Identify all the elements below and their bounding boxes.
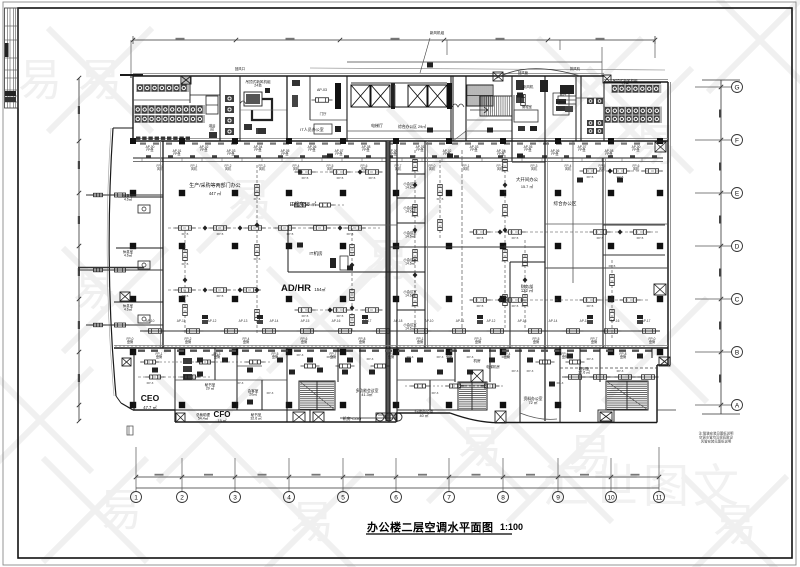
svg-text:FP-5: FP-5	[337, 176, 344, 180]
svg-text:15 ㎡: 15 ㎡	[217, 418, 226, 423]
label CEO	[141, 393, 160, 410]
svg-text:47.7 ㎡: 47.7 ㎡	[143, 404, 157, 410]
grid line 11	[654, 447, 665, 503]
vertical run x257	[255, 165, 260, 335]
svg-text:AP-13: AP-13	[239, 319, 248, 323]
vertical unit runs	[413, 150, 615, 340]
svg-text:FP-5: FP-5	[609, 264, 616, 268]
svg-text:AP-03: AP-03	[317, 88, 327, 92]
svg-text:AP-15: AP-15	[301, 319, 310, 323]
svg-text:风机: 风机	[531, 166, 538, 171]
svg-text:24台: 24台	[254, 83, 262, 88]
AHU room top-left	[240, 79, 287, 134]
svg-text:FP-5: FP-5	[182, 232, 189, 236]
long fan-coil run y330	[140, 329, 660, 334]
svg-text:FP-5: FP-5	[512, 236, 519, 240]
svg-text:AP-12: AP-12	[487, 319, 496, 323]
grid line 6	[391, 458, 402, 503]
bottom band label clusters	[127, 337, 656, 359]
lower strip wall y410	[175, 410, 460, 422]
svg-text:A: A	[735, 403, 740, 410]
corridor wall below top band	[133, 139, 668, 145]
label finance	[521, 283, 534, 293]
svg-text:FP盘: FP盘	[632, 147, 640, 152]
svg-text:盘管: 盘管	[301, 339, 307, 344]
central corridor wall	[386, 141, 390, 421]
staircase bottom right	[606, 381, 648, 410]
room between stair and toilet2	[553, 76, 581, 141]
svg-text:AP-14: AP-14	[270, 319, 279, 323]
svg-text:447 ㎡: 447 ㎡	[209, 190, 222, 196]
toilet block label row	[136, 137, 190, 140]
svg-text:易: 易	[98, 486, 142, 535]
staircase bottom middle	[458, 382, 487, 410]
svg-text:4.6㎡: 4.6㎡	[124, 306, 133, 311]
bottom center doorway	[376, 413, 396, 422]
grid bubble F	[695, 135, 743, 146]
bottom right room fan coils	[562, 375, 659, 380]
svg-text:FP-5: FP-5	[502, 214, 509, 218]
svg-text:32.6 ㎡: 32.6 ㎡	[578, 370, 590, 375]
building right exterior wall	[668, 82, 671, 365]
svg-text:FP-5: FP-5	[217, 232, 224, 236]
svg-text:AP-12: AP-12	[208, 319, 217, 323]
svg-text:风机: 风机	[463, 166, 470, 171]
svg-text:机房: 机房	[473, 358, 481, 363]
top outside labels	[235, 30, 581, 75]
toilet block 2 partitions	[576, 77, 661, 141]
svg-text:大开间办公: 大开间办公	[516, 176, 539, 183]
svg-text:FP-5: FP-5	[512, 304, 519, 308]
svg-text:FP-5: FP-5	[302, 176, 309, 180]
left small room units	[123, 193, 150, 323]
wall cap top-left	[113, 75, 143, 128]
xbox under stair left	[313, 412, 324, 422]
fan-coil run lower mid	[295, 308, 383, 313]
top mid walls near stairs	[451, 76, 545, 162]
svg-text:FP-5: FP-5	[182, 294, 189, 298]
svg-text:D: D	[735, 244, 740, 251]
grid bubble B	[695, 347, 743, 358]
svg-text:10: 10	[607, 495, 615, 502]
label CFO	[214, 410, 231, 423]
svg-text:FP-3: FP-3	[527, 369, 534, 373]
toilet block 2 top label	[612, 78, 638, 87]
bottom band partitions	[134, 346, 657, 422]
toilet block 2 small cells	[587, 98, 603, 134]
wall x603 vertical	[603, 158, 606, 348]
svg-text:FP-5: FP-5	[337, 314, 344, 318]
elevator doors	[240, 101, 464, 107]
toilet block partitions left	[133, 76, 287, 141]
svg-text:40 ㎡: 40 ㎡	[419, 413, 428, 418]
svg-text:F: F	[735, 138, 739, 145]
svg-text:9: 9	[556, 495, 560, 502]
svg-text:综合办公区: 综合办公区	[554, 200, 577, 207]
structural columns	[130, 138, 663, 408]
svg-text:盘管: 盘管	[388, 354, 394, 359]
left rooms column wall	[114, 141, 163, 348]
lobby partition walls	[287, 76, 347, 141]
fan-coil run lower right2	[470, 298, 651, 303]
svg-text:14.6㎡: 14.6㎡	[405, 325, 415, 330]
svg-text:回风口: 回风口	[235, 67, 245, 71]
svg-text:FP-3: FP-3	[467, 355, 474, 359]
label ADHR	[281, 283, 326, 294]
svg-text:FP盘: FP盘	[335, 151, 343, 156]
svg-text:FP-5: FP-5	[437, 197, 444, 201]
svg-text:FP-5: FP-5	[287, 232, 294, 236]
left room xbox	[120, 292, 130, 301]
svg-text:FP盘: FP盘	[200, 147, 208, 152]
svg-text:门厅: 门厅	[320, 111, 327, 116]
svg-text:盘管: 盘管	[359, 339, 365, 344]
svg-text:风机: 风机	[361, 166, 368, 171]
toilet fixtures row 3 right block	[604, 115, 662, 123]
duct run extra marks	[146, 155, 657, 157]
fan-coil run mid right	[470, 230, 661, 235]
grid line 5	[338, 458, 349, 503]
lobby unit	[292, 80, 341, 134]
top dimension line	[131, 36, 657, 76]
svg-text:8: 8	[501, 495, 505, 502]
shaft xbox bottom middle	[495, 411, 506, 423]
meeting rooms stack	[390, 141, 545, 348]
svg-text:FP-5: FP-5	[587, 304, 594, 308]
svg-text:11: 11	[656, 495, 663, 502]
svg-text:FP盘: FP盘	[551, 151, 559, 156]
svg-text:FP-5: FP-5	[587, 175, 594, 179]
building top exterior wall	[133, 74, 668, 83]
toilet fixtures row 3 left block	[134, 115, 205, 123]
fan-coil run right upper	[580, 169, 664, 174]
svg-text:盘管: 盘管	[620, 354, 626, 359]
svg-text:FP-3: FP-3	[212, 353, 219, 357]
wall x545 vertical	[545, 141, 548, 421]
svg-text:CEO: CEO	[141, 393, 160, 403]
svg-text:B: B	[735, 350, 739, 357]
bottom band extra clusters	[147, 353, 624, 395]
svg-text:FP盘: FP盘	[146, 147, 154, 152]
grid bubble E	[695, 188, 743, 199]
svg-text:AP-14: AP-14	[549, 319, 558, 323]
corner mark bottom left	[127, 426, 133, 435]
entrance canopy arc	[495, 69, 580, 79]
svg-text:新风机: 新风机	[523, 84, 534, 89]
legend notes bottom right	[699, 431, 734, 444]
svg-text:FP盘: FP盘	[362, 147, 370, 152]
scattered small units middle	[297, 63, 623, 271]
svg-text:回风管: 回风管	[518, 70, 529, 75]
right dimension line	[702, 80, 740, 414]
bottom band small units	[152, 354, 643, 405]
wall x453	[452, 76, 454, 141]
vertical run x352	[350, 228, 355, 332]
right zone wall y268	[545, 224, 668, 268]
grid line 1	[131, 447, 142, 503]
elevator bank	[335, 83, 452, 109]
financial room walls	[510, 262, 545, 348]
svg-text:风机: 风机	[565, 166, 572, 171]
svg-text:20㎡: 20㎡	[249, 392, 257, 397]
svg-text:FP-5: FP-5	[637, 236, 644, 240]
bottom-left exterior wall	[116, 365, 668, 423]
svg-text:FP盘: FP盘	[173, 151, 181, 156]
lower strip labels	[196, 412, 262, 421]
svg-text:72 ㎡: 72 ㎡	[528, 400, 537, 405]
grid line 2	[177, 458, 188, 503]
svg-text:风机: 风机	[191, 166, 198, 171]
svg-text:CFO: CFO	[214, 410, 231, 419]
svg-text:15.7 ㎡: 15.7 ㎡	[521, 184, 533, 189]
label IT office right	[516, 176, 577, 207]
grid line 9	[553, 458, 564, 503]
title strip table	[5, 8, 19, 108]
svg-text:盘管: 盘管	[475, 339, 481, 344]
bottom band tick row	[138, 350, 652, 352]
svg-text:盘管: 盘管	[185, 339, 191, 344]
label IT room	[290, 201, 316, 208]
svg-text:盘管: 盘管	[533, 339, 539, 344]
grid line 8	[498, 458, 509, 503]
toilet fixtures row 2 left block	[134, 105, 205, 114]
svg-text:风机: 风机	[225, 166, 232, 171]
svg-text:154㎡: 154㎡	[314, 286, 326, 292]
toilet fixtures row 1 right block	[611, 85, 661, 94]
bottom band top wall	[114, 346, 668, 349]
svg-text:盘管: 盘管	[649, 339, 655, 344]
svg-text:FP-3: FP-3	[147, 381, 154, 385]
svg-text:FP-5: FP-5	[254, 197, 261, 201]
svg-text:盘管: 盘管	[591, 339, 597, 344]
svg-text:风机: 风机	[633, 166, 640, 171]
svg-text:FP-5: FP-5	[502, 259, 509, 263]
svg-text:风管安装见图纸说明: 风管安装见图纸说明	[701, 439, 732, 444]
svg-text:AP-10: AP-10	[425, 319, 434, 323]
svg-text:FP-3: FP-3	[437, 355, 444, 359]
svg-text:FP-3: FP-3	[617, 369, 624, 373]
label production office	[189, 182, 240, 196]
svg-text:风机: 风机	[395, 166, 402, 171]
svg-text:FP-5: FP-5	[182, 262, 189, 266]
fan-coil run upper rooms	[295, 170, 383, 175]
svg-text:3: 3	[233, 495, 237, 502]
wall x573	[572, 141, 574, 283]
shaft xbox above bottom stair	[471, 358, 500, 382]
shaft xbox right of stair	[493, 72, 503, 81]
svg-text:FP盘: FP盘	[308, 147, 316, 152]
svg-text:G: G	[734, 85, 739, 92]
grid bubble A	[695, 400, 743, 411]
svg-text:FP盘: FP盘	[470, 147, 478, 152]
room 512-545 fixtures	[514, 80, 538, 131]
toilet fixtures row 1 left block	[136, 84, 189, 92]
xbox on left wall bottom	[122, 358, 131, 366]
svg-text:FP-5: FP-5	[617, 175, 624, 179]
grid bubble D	[695, 241, 743, 252]
svg-text:FP-3: FP-3	[557, 381, 564, 385]
svg-text:易: 易	[290, 498, 334, 547]
svg-text:5: 5	[341, 495, 345, 502]
duct stub x462	[461, 150, 463, 330]
svg-text:FP盘: FP盘	[416, 147, 424, 152]
svg-text:6: 6	[394, 495, 398, 502]
wall x397 meeting rooms west	[396, 141, 398, 348]
svg-text:FP-3: FP-3	[267, 391, 274, 395]
svg-text:风机: 风机	[327, 166, 334, 171]
svg-text:7: 7	[447, 495, 451, 502]
svg-text:生产/采购等两部门办公: 生产/采购等两部门办公	[189, 182, 240, 189]
svg-text:机房·COO: 机房·COO	[343, 415, 361, 421]
svg-text:FP-5: FP-5	[369, 176, 376, 180]
building left curved curtain wall	[107, 128, 116, 396]
svg-text:FP-3: FP-3	[237, 381, 244, 385]
svg-text:FP盘: FP盘	[254, 147, 262, 152]
svg-text:新风机组: 新风机组	[430, 30, 445, 35]
svg-text:易: 易	[458, 423, 502, 472]
svg-text:122 ㎡: 122 ㎡	[521, 287, 534, 293]
curve bottom middle	[520, 413, 557, 419]
svg-text:FP-5: FP-5	[412, 169, 419, 173]
svg-text:IT人员办公室: IT人员办公室	[300, 126, 324, 132]
svg-text:AP-18: AP-18	[394, 319, 403, 323]
shower cells	[206, 96, 264, 138]
svg-text:1: 1	[134, 495, 138, 502]
svg-text:14.6㎡: 14.6㎡	[405, 233, 415, 238]
stair landing lines	[467, 120, 512, 131]
left block west wall	[132, 76, 134, 141]
svg-text:盘管: 盘管	[417, 339, 423, 344]
svg-text:29 ㎡: 29 ㎡	[206, 386, 215, 391]
svg-text:风机: 风机	[429, 166, 436, 171]
svg-text:风机: 风机	[259, 166, 266, 171]
svg-text:FP-5: FP-5	[217, 294, 224, 298]
svg-text:4.6㎡: 4.6㎡	[124, 252, 133, 257]
svg-text:E: E	[735, 191, 740, 198]
grid line 7	[444, 458, 455, 503]
svg-text:FP-5: FP-5	[412, 214, 419, 218]
svg-text:4: 4	[287, 495, 291, 502]
bottom notch with xbox	[598, 410, 614, 422]
svg-text:FP-3: FP-3	[502, 355, 509, 359]
right wall shaft boxes	[654, 142, 666, 295]
grid line 4	[284, 458, 295, 503]
svg-text:电梯机房: 电梯机房	[486, 364, 500, 369]
svg-text:1:100: 1:100	[500, 522, 523, 532]
svg-text:FP-5: FP-5	[522, 304, 529, 308]
svg-text:盘管: 盘管	[127, 339, 133, 344]
lower strip xboxes	[176, 412, 305, 422]
svg-text:FP-5: FP-5	[522, 264, 529, 268]
svg-text:54.4㎡: 54.4㎡	[198, 416, 209, 421]
svg-text:综合办公区 29㎡: 综合办公区 29㎡	[398, 124, 426, 129]
AHU room 2 labels	[514, 80, 548, 120]
svg-text:盘管: 盘管	[156, 354, 162, 359]
grid line 10	[606, 458, 617, 503]
svg-text:办公楼二层空调水平面图: 办公楼二层空调水平面图	[367, 520, 494, 534]
svg-text:FP-5: FP-5	[502, 169, 509, 173]
canopy line above top wall	[310, 62, 665, 70]
svg-text:AP-10: AP-10	[146, 319, 155, 323]
left stub runs	[78, 193, 163, 327]
lobby floor line	[347, 131, 466, 141]
svg-text:风机: 风机	[599, 166, 606, 171]
drawing title	[366, 520, 523, 534]
svg-text:2: 2	[180, 495, 184, 502]
shaft at top of toilet block	[181, 76, 191, 84]
svg-text:32.6 ㎡: 32.6 ㎡	[250, 416, 262, 421]
bottom band unit runs	[140, 360, 585, 388]
svg-text:FP-5: FP-5	[254, 257, 261, 261]
staircase bottom left	[299, 381, 335, 410]
svg-text:FP-5: FP-5	[597, 236, 604, 240]
svg-text:风机: 风机	[293, 166, 300, 171]
grid line 3	[230, 458, 241, 503]
bottom dimension line	[134, 474, 661, 488]
fixture stack right of CEO	[183, 358, 192, 380]
right rooms dividers	[603, 225, 665, 255]
svg-text:FP-5: FP-5	[412, 259, 419, 263]
vertical run x185	[183, 230, 188, 335]
grid bubble G	[695, 82, 743, 93]
run through CEO top	[138, 375, 210, 379]
svg-text:AP-11: AP-11	[177, 319, 186, 323]
svg-text:C: C	[735, 297, 740, 304]
svg-text:AD/HR: AD/HR	[281, 283, 311, 294]
svg-text:FP盘: FP盘	[524, 147, 532, 152]
svg-text:FP-5: FP-5	[477, 236, 484, 240]
svg-text:FP-5: FP-5	[347, 232, 354, 236]
shaft top toilet2	[603, 75, 611, 83]
IT room walls	[288, 225, 397, 272]
main duct run horizontal	[133, 158, 663, 162]
middle zone run labels	[182, 169, 644, 318]
svg-text:AP-11: AP-11	[456, 319, 465, 323]
run IT upper	[290, 203, 345, 207]
svg-text:FP-5: FP-5	[412, 304, 419, 308]
fan-coil run production2	[168, 288, 262, 293]
svg-text:易: 易	[78, 56, 122, 105]
open office west wall	[162, 141, 164, 348]
AHU cluster left of toilet2	[556, 85, 576, 112]
svg-text:管理室: 管理室	[522, 104, 533, 109]
svg-text:FP-3: FP-3	[587, 357, 594, 361]
svg-text:IT机房: IT机房	[309, 250, 323, 257]
svg-text:FP-5: FP-5	[477, 304, 484, 308]
label clusters above y330 run	[146, 315, 651, 324]
svg-text:易: 易	[18, 56, 62, 105]
svg-text:AP-16: AP-16	[332, 319, 341, 323]
svg-text:FP-3: FP-3	[327, 355, 334, 359]
svg-text:盘管: 盘管	[243, 339, 249, 344]
duct run label clusters below	[157, 164, 640, 171]
staircase 1 top	[467, 85, 493, 106]
svg-text:汇世图文: 汇世图文	[543, 460, 743, 512]
bottom center toilet circles	[340, 413, 402, 421]
left dimension line	[77, 76, 81, 423]
svg-text:FP-5: FP-5	[302, 314, 309, 318]
svg-text:FP-3: FP-3	[512, 369, 519, 373]
bottom right shaft xbox	[657, 357, 676, 410]
grid bubble C	[695, 294, 743, 305]
svg-text:FP-3: FP-3	[297, 353, 304, 357]
fan-coil run production1	[168, 226, 380, 231]
svg-text:电梯厅: 电梯厅	[371, 122, 383, 128]
svg-text:41.3㎡: 41.3㎡	[361, 392, 372, 397]
valve diamonds on runs	[183, 168, 623, 312]
svg-text:FP-3: FP-3	[432, 391, 439, 395]
staircase 2 top	[470, 96, 512, 116]
